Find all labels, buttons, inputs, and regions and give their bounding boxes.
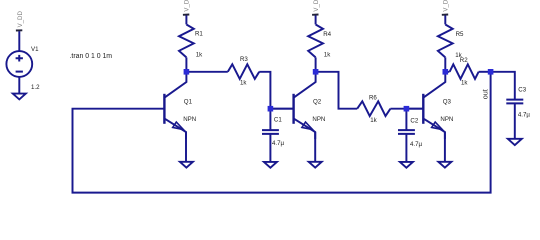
wire Q3 emitter to ground	[444, 132, 446, 162]
svg-text:Q1: Q1	[184, 98, 193, 105]
Q3 emitter arrow	[432, 122, 443, 130]
ground (C1)	[264, 162, 277, 168]
node out junction	[488, 69, 494, 75]
wire C3 bottom lead	[514, 103, 516, 138]
capacitor C3	[506, 87, 530, 145]
svg-text:Q3: Q3	[443, 98, 452, 105]
ground (C2)	[400, 162, 413, 168]
wire R4 top lead	[315, 15, 317, 24]
wire R3 to C1 node	[259, 72, 270, 109]
svg-text:V_DD: V_DD	[443, 0, 450, 12]
C1 bottom plate	[262, 133, 279, 135]
Q2 base bar	[292, 94, 294, 124]
wire R1 top lead	[185, 15, 187, 24]
wire Q2 collector over and down to R6	[316, 72, 358, 109]
ground (Q2 emitter)	[309, 162, 322, 168]
Q3 base bar	[422, 94, 424, 124]
svg-text:V1: V1	[31, 46, 39, 53]
svg-text:.tran 0 1 0 1m: .tran 0 1 0 1m	[70, 53, 113, 60]
resistor R2	[450, 57, 479, 87]
svg-text:1k: 1k	[370, 117, 377, 124]
svg-text:1k: 1k	[196, 51, 203, 58]
wire C1 top lead	[269, 109, 271, 130]
R4 zigzag body	[308, 25, 323, 58]
C2 bottom plate	[398, 133, 415, 135]
wire R5 bottom lead	[444, 57, 446, 71]
node Q3 collector junction	[443, 69, 449, 75]
svg-text:1.2: 1.2	[31, 84, 40, 91]
R5 zigzag body	[438, 25, 453, 58]
wire Q2 emitter to ground	[314, 132, 316, 162]
wire V1 top lead	[18, 31, 20, 51]
svg-text:4.7µ: 4.7µ	[518, 111, 531, 118]
svg-text:C2: C2	[410, 117, 418, 124]
node Q2 collector junction	[313, 69, 319, 75]
R1 zigzag body	[179, 25, 194, 58]
wire Q3 collector to R2	[445, 71, 449, 73]
ground (Q1 emitter)	[180, 162, 193, 168]
wire R1 bottom lead	[185, 57, 187, 71]
resistor R4	[308, 0, 331, 72]
svg-text:4.7µ: 4.7µ	[410, 141, 423, 148]
wire node to Q2 base	[270, 108, 293, 110]
resistor R1	[179, 0, 203, 72]
svg-text:R4: R4	[323, 31, 331, 38]
svg-text:R5: R5	[456, 31, 464, 38]
svg-text:V_DD: V_DD	[184, 0, 191, 12]
svg-text:Q2: Q2	[313, 98, 322, 105]
V1 minus sign	[16, 71, 23, 73]
Q2 emitter arrow	[302, 122, 313, 130]
C1 top plate	[262, 129, 279, 131]
V1 plus sign	[16, 55, 23, 62]
Q3 emitter lead	[424, 119, 445, 139]
svg-text:R2: R2	[460, 57, 468, 64]
capacitor C2	[398, 109, 423, 168]
node Q2 base junction	[268, 106, 274, 112]
capacitor C1	[262, 109, 285, 168]
svg-text:4.7µ: 4.7µ	[272, 140, 285, 147]
wire out node to C3	[491, 72, 515, 100]
svg-text:V_DD: V_DD	[313, 0, 320, 12]
Q1 emitter arrow	[173, 122, 184, 130]
wire Q1 collector to R3	[186, 71, 227, 73]
wire R4 bottom lead	[315, 57, 317, 71]
wire Q2 base	[270, 108, 293, 110]
voltage source V1	[6, 11, 40, 100]
R6 zigzag body	[357, 101, 390, 116]
C2 top plate	[398, 129, 415, 131]
wire R6 to C2 node	[390, 108, 406, 110]
svg-text:NPN: NPN	[312, 116, 325, 123]
svg-text:1k: 1k	[324, 51, 331, 58]
wire feedback loop out to Q1 base	[73, 72, 491, 193]
wire V1 bottom lead	[18, 77, 20, 94]
ground (C3)	[508, 139, 522, 145]
svg-text:out: out	[481, 89, 490, 99]
Q2 emitter lead	[294, 119, 315, 139]
wire C2 bottom lead	[405, 134, 407, 162]
resistor R5	[438, 0, 464, 72]
node Q1 collector junction	[184, 69, 190, 75]
Q1 emitter lead	[165, 119, 186, 139]
node Q3 base junction	[404, 106, 410, 112]
wire Q1 emitter to ground	[185, 132, 187, 162]
C3 bottom plate	[506, 102, 523, 104]
wire C1 bottom lead	[269, 134, 271, 162]
transistor Q1	[164, 72, 196, 168]
svg-text:NPN: NPN	[440, 116, 453, 123]
Q1 base bar	[163, 94, 165, 124]
wire R5 top lead	[444, 15, 446, 24]
V1 circle body	[6, 51, 32, 77]
wire C2 top lead	[405, 109, 407, 130]
ground (Q3 emitter)	[438, 162, 451, 168]
wire Q3 base	[406, 108, 423, 110]
Q2 collector lead	[294, 72, 316, 98]
transistor Q3	[423, 72, 453, 168]
svg-text:1k: 1k	[461, 80, 468, 87]
resistor R3	[228, 56, 259, 87]
svg-text:C1: C1	[274, 117, 282, 124]
C3 top plate	[506, 99, 523, 101]
Q3 collector lead	[424, 72, 446, 98]
ground (V1)	[13, 94, 26, 100]
svg-text:R1: R1	[195, 31, 203, 38]
transistor Q2	[294, 72, 326, 168]
resistor R6	[357, 95, 390, 124]
Q1 collector lead	[165, 72, 187, 98]
R2 zigzag body	[450, 64, 479, 79]
wire node to Q3 base	[406, 108, 424, 110]
svg-text:1k: 1k	[240, 80, 247, 87]
wire R2 to out node	[479, 71, 491, 73]
svg-text:V_DD: V_DD	[17, 11, 24, 28]
R3 zigzag body	[228, 64, 259, 79]
svg-text:C3: C3	[518, 87, 526, 94]
svg-text:NPN: NPN	[183, 116, 196, 123]
svg-text:R6: R6	[369, 95, 377, 102]
svg-text:R3: R3	[240, 56, 248, 63]
